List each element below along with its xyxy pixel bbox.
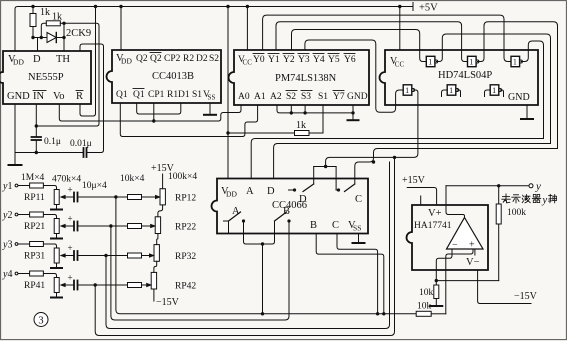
wire inv4 output to switch feed [326,90,418,167]
wire 4013 VSS [209,103,211,115]
svg-text:TH: TH [56,54,70,65]
wire row3 to 10k [78,255,128,257]
junction R2 right-TH [62,22,65,25]
wire bus L1 row1 [116,197,416,314]
junction rail-4066 VDD line [226,5,229,8]
svg-text:Y4: Y4 [313,55,325,65]
svg-text:V+: V+ [428,208,442,219]
svg-text:CP2: CP2 [164,54,181,64]
svg-text:1: 1 [469,58,473,67]
svg-text:y2: y2 [2,210,12,221]
resistor R3 1k [228,120,323,136]
op-amp triangle U6 [447,218,484,251]
resistor R6 10k vertical [419,285,439,306]
IC U2 CC4013B [107,50,222,103]
wire inv1 output to D line [436,34,550,144]
wire inv5 hooks [442,90,461,97]
ground RP41 [51,297,62,299]
svg-text:D: D [299,194,307,205]
wire Y2 to inv1 input [292,30,427,62]
wire 138 VCC [246,7,248,51]
resistor 1M row2 [19,212,57,219]
junction CP1-Vo line [152,119,155,122]
wire feedback to minus [436,280,498,282]
svg-text:Y0: Y0 [253,55,265,65]
junction A drop-L1 [261,312,264,315]
svg-text:1: 1 [513,58,517,67]
+5V rail wire [15,3,413,52]
switch D label [299,194,307,205]
potentiometer RP22 [150,217,196,234]
svg-text:Y6: Y6 [344,55,356,65]
svg-text:GND: GND [508,92,530,103]
label +15V pots [151,163,175,174]
wire A2 S2 S3 gnd bracket [277,105,353,113]
inverter U4D [403,85,414,95]
svg-text:1: 1 [449,86,453,95]
wire Y0 to inv3 input [263,15,512,61]
ground 4013 [204,114,216,116]
svg-text:R2: R2 [183,54,194,64]
junction row2 tap [109,224,112,227]
junction C wrap-L1 [376,312,379,315]
junction rail-138 VCC [246,5,249,8]
svg-text:Y5: Y5 [328,55,340,65]
capacitor C2 0.01u [70,139,92,157]
junction rail-R555 reset [94,5,97,8]
inverter U4E [447,85,458,95]
svg-text:S1: S1 [318,92,328,102]
+5V label [419,3,438,14]
svg-text:10k: 10k [417,302,432,312]
svg-text:3: 3 [38,316,43,327]
resistor R7 10k horizontal [416,302,446,317]
potentiometer RP12 [155,189,196,205]
label 470k x4 [52,175,81,185]
junction GND bracket [351,111,354,114]
resistor 1M row1 [19,183,57,190]
wire minus input [436,249,452,285]
wire bus L4 row4 [95,157,394,335]
wire IN pin [35,104,37,137]
svg-text:RP41: RP41 [24,281,45,291]
label y [535,181,541,193]
svg-text:RP12: RP12 [175,194,196,204]
wire D control line [274,144,551,179]
wire bus L3 row3 [106,162,390,329]
svg-text:+5V: +5V [419,3,438,14]
junction R1-D pin-diode [31,36,34,39]
resistor 10k row1 [128,195,156,200]
wire A input drop [262,244,264,314]
junction S3 bracket [303,111,306,114]
svg-text:Y3: Y3 [298,55,310,65]
figure number 3 [34,313,48,327]
svg-text:RP11: RP11 [24,193,45,203]
wire S1 pin [322,105,324,133]
svg-text:Q2: Q2 [150,54,162,64]
wire inv6 hooks [485,90,504,97]
svg-text:1: 1 [428,58,432,67]
wire plus input [446,249,473,314]
svg-text:D: D [33,54,41,65]
svg-text:−: − [452,240,458,251]
svg-text:Q1: Q1 [133,90,145,100]
analog switch A [224,212,246,234]
svg-text:SS: SS [353,224,361,233]
ground 138 [348,119,359,121]
svg-text:0.1μ: 0.1μ [44,137,61,147]
IC U4 HD74LS04P [380,50,539,105]
junction y-100k [497,184,500,187]
svg-text:1k: 1k [52,12,62,23]
wire 7404 GND [526,105,528,119]
wire 4013 VDD [120,7,122,51]
svg-text:−15V: −15V [514,291,538,302]
svg-text:CP1: CP1 [148,90,165,100]
svg-text:GND: GND [347,92,368,102]
ground 4066 [353,242,365,244]
terminal y4 [2,269,18,280]
wire AB switch loop [244,234,275,245]
inverter U4B [468,56,479,66]
wire Y3 to inv4 input [305,40,403,112]
svg-text:RP32: RP32 [175,252,196,262]
svg-text:100k: 100k [507,208,526,218]
svg-text:GND: GND [7,91,30,102]
svg-text:IN: IN [33,91,44,102]
wire B pin wrap [316,234,384,314]
label -15V opamp [514,291,538,302]
junction row4 tap [94,283,97,286]
capacitor 10u row4 [68,273,78,290]
resistor 10k row4 [128,283,147,288]
wire row4 to 10k [78,284,128,286]
resistor R5 100k [496,186,526,281]
IC U3 PM74LS138N [229,50,370,105]
svg-text:y1: y1 [2,181,12,192]
potentiometer RP32 [149,245,196,262]
switch C label [355,194,362,205]
junction row1 tap [114,195,117,198]
junction rail-R1 [31,5,34,8]
label 10k x4 [120,174,145,184]
junction L4-inv4 line [393,156,396,159]
svg-text:S2: S2 [209,54,219,64]
svg-text:HD74LS04P: HD74LS04P [438,70,492,81]
label 10u x4 [82,181,107,191]
potentiometer RP21 [24,219,74,239]
svg-text:Vo: Vo [53,91,64,102]
potentiometer RP42 [146,272,196,291]
resistor 10k row3 [128,253,150,258]
svg-text:R: R [76,91,83,102]
wire Vo to CP1 and A0 [59,104,241,121]
ground NE555 [9,164,22,166]
svg-text:1k: 1k [40,7,50,18]
junction B wrap-L1 [382,312,385,315]
svg-text:DD: DD [121,57,132,66]
wire bus L2 row2 [111,221,289,320]
wire Y1 to inv2 input [276,22,468,62]
junction S2 bracket [290,111,293,114]
svg-text:CC4013B: CC4013B [152,71,194,82]
svg-text:Y7: Y7 [333,92,345,102]
ground RP21 [51,238,62,240]
wire switch feed bar [314,167,336,191]
wire C pin wrap [337,234,378,314]
inverter U4F [490,85,501,95]
svg-text:+15V: +15V [402,175,426,186]
wire RP42 to -15V [153,289,155,301]
junction 1k to +5V line [226,131,229,134]
ground opamp 10k [430,305,442,307]
junction feed-inv4 [324,165,327,168]
svg-text:HA17741: HA17741 [414,221,452,231]
svg-text:S1: S1 [192,90,202,100]
svg-text:S2: S2 [286,92,296,102]
capacitor 10u row2 [68,214,78,231]
label 100k x4 [168,172,197,182]
junction R2 left-diode anode [40,36,43,39]
svg-text:y: y [542,195,548,206]
IC U5 CC4066 [212,179,368,234]
label +15V opamp [402,175,426,186]
wire Q1 to A1 [120,103,257,137]
resistor R1 1k [30,7,50,38]
ground RP11 [51,209,62,211]
switch B label [283,206,290,217]
diode D1 2CK9 [33,28,91,43]
svg-text:RP31: RP31 [24,252,45,262]
inverter U4C [511,56,522,66]
junction C1-gnd rail [35,151,38,154]
svg-text:Q2: Q2 [136,54,148,64]
inverter U4A [426,56,437,66]
junction row3 tap [104,254,107,257]
wire TH to IN tie [36,23,99,126]
resistor 1M row3 [19,242,57,249]
resistor 1M row4 [19,271,57,278]
svg-text:10k: 10k [419,288,434,298]
junction rail-4013 VDD [119,5,122,8]
junction L3-C switch [372,160,375,163]
potentiometer RP11 [24,190,74,210]
svg-text:D1: D1 [178,90,190,100]
terminal y2 [2,210,18,221]
svg-text:PM74LS138N: PM74LS138N [275,73,337,84]
svg-text:Y2: Y2 [283,55,295,65]
svg-text:DD: DD [226,190,237,199]
potentiometer RP31 [24,248,74,268]
wire inv3 output to A line [521,41,544,139]
svg-text:A1: A1 [254,92,266,102]
label -15V pots [156,297,180,308]
svg-text:y4: y4 [2,269,12,280]
svg-text:V−: V− [466,257,480,268]
capacitor 10u row1 [68,185,78,202]
potentiometer RP41 [24,278,74,298]
wire D pin [37,38,39,52]
capacitor C1 0.1u [32,137,61,153]
svg-text:D: D [267,186,275,197]
wire VDD pin NE555 [14,44,16,51]
IC U1 NE555P [0,51,91,104]
wire Vminus lead [474,249,476,255]
svg-text:10k×4: 10k×4 [120,174,145,184]
svg-text:C: C [355,194,362,205]
wire C control line [355,149,558,185]
svg-text:B: B [310,220,317,231]
wire 4066 VSS [358,234,360,244]
wire CP1 pin [153,103,155,121]
wire Q1bar-D1 loop [137,103,181,114]
wire RP chain +15V [154,174,163,272]
svg-text:+: + [68,273,73,283]
svg-text:Y1: Y1 [268,55,280,65]
svg-text:10μ×4: 10μ×4 [82,181,107,191]
wire inv2 output to C line [477,22,557,149]
wire row1 to 10k [78,196,128,198]
svg-text:+: + [68,243,73,253]
svg-text:1: 1 [405,86,409,95]
analog switch D [289,184,314,192]
junction IN-tie [35,124,38,127]
resistor 10k row2 [128,224,151,229]
svg-text:+: + [68,185,73,195]
svg-text:D2: D2 [196,54,208,64]
svg-text:y3: y3 [2,240,12,251]
svg-text:Q1: Q1 [116,90,128,100]
svg-text:1M×4: 1M×4 [21,173,45,183]
svg-text:+: + [68,214,73,224]
junction minus node [435,279,438,282]
svg-text:NE555P: NE555P [28,72,64,83]
svg-text:RP42: RP42 [175,282,196,292]
analog switch C [336,184,355,192]
wire -15V opamp [478,270,531,304]
analog switch B [275,212,291,234]
capacitor 10u row3 [68,243,78,260]
IC U6 HA17741 [407,205,488,270]
svg-text:CC: CC [243,59,253,67]
wire CV pin 0.01u [80,44,104,153]
svg-text:+15V: +15V [151,163,175,174]
svg-text:A: A [246,186,254,197]
wire 138 GND [352,105,354,120]
svg-text:y: y [535,181,541,193]
svg-text:1k: 1k [296,120,306,131]
svg-text:A2: A2 [270,92,282,102]
svg-text:+: + [469,240,475,251]
wire TH pin [62,23,65,51]
svg-text:CC: CC [395,61,405,69]
wire gnd rail [15,152,84,154]
svg-text:DD: DD [13,58,24,67]
svg-text:RP22: RP22 [175,223,196,233]
label 1M x4 [21,173,45,183]
wire reset pin R to +5V [80,7,96,117]
svg-text:RP21: RP21 [24,222,45,232]
ground 7404 [521,118,533,120]
svg-text:A0: A0 [238,92,250,102]
junction AB loop [261,242,264,245]
svg-text:470k×4: 470k×4 [52,175,81,185]
terminal y3 [2,240,18,251]
svg-text:R1: R1 [167,90,178,100]
wire V+ supply [407,188,436,206]
wire y output rail [446,184,533,188]
wire opamp output [446,186,465,218]
svg-text:2CK9: 2CK9 [66,28,91,39]
ground RP31 [51,267,62,269]
svg-text:−15V: −15V [156,297,180,308]
label V- opamp [466,257,480,268]
svg-text:1: 1 [492,86,496,95]
svg-text:SS: SS [208,94,216,102]
resistor R2 1k [41,12,64,38]
wire 7404 VCC [399,7,401,51]
label to oscilloscope [502,194,557,206]
wire 4066 VDD from +5V [227,7,229,179]
wire A control line [251,139,543,179]
wire GND pin NE555 [14,104,16,165]
wire row2 to 10k [78,225,128,227]
svg-text:S3: S3 [301,92,311,102]
svg-text:C: C [332,220,339,231]
junction rail-7404 VCC [398,5,401,8]
svg-text:0.01μ: 0.01μ [70,139,92,149]
terminal y1 [2,181,18,192]
switch A label [232,206,240,217]
